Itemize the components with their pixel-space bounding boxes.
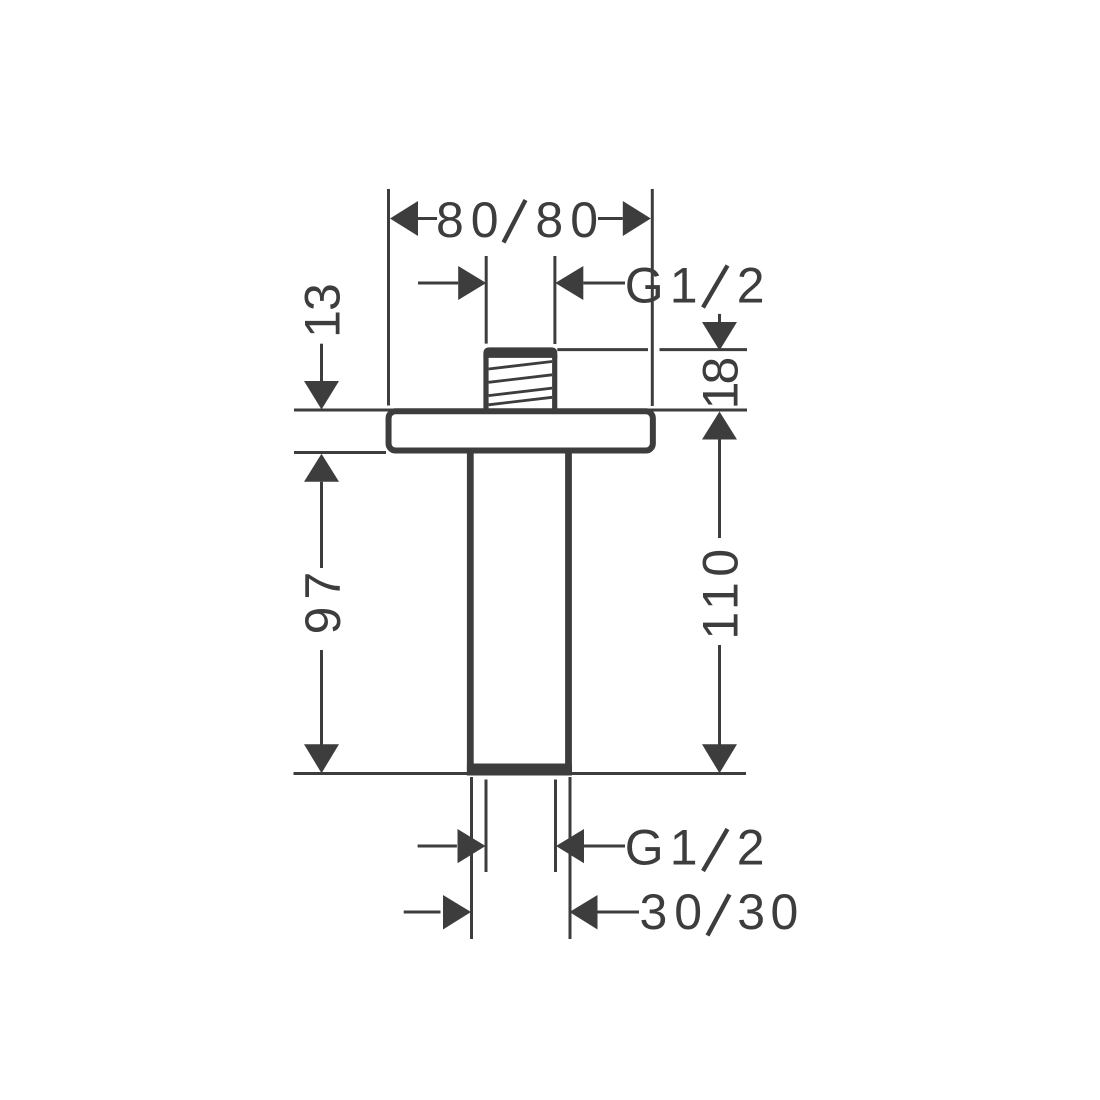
dim 80/80 left arrowhead bbox=[390, 201, 418, 236]
extension line thread G1/2 left bbox=[485, 256, 488, 344]
extension line 80/80 right bbox=[651, 189, 654, 406]
threaded nipple right wall bbox=[552, 355, 557, 409]
dim thread G1/2 right arrowhead bbox=[555, 266, 583, 300]
dim 30/30 right arrowhead bbox=[570, 895, 598, 930]
thread hatch line 2 bbox=[489, 375, 552, 383]
svg-text:110: 110 bbox=[693, 543, 749, 639]
extension line bottom G1/2 left bbox=[485, 780, 488, 873]
dim 97 down arrowhead bbox=[304, 744, 339, 773]
dim 80/80 right tail bbox=[598, 217, 623, 220]
svg-text:G1: G1 bbox=[625, 820, 704, 876]
svg-text:2: 2 bbox=[737, 820, 765, 876]
dim 80/80 right arrowhead bbox=[623, 201, 651, 236]
dim 80/80 left tail bbox=[418, 217, 437, 220]
dim 13 down arrowhead bbox=[304, 381, 339, 410]
extension line bottom G1/2 right bbox=[554, 780, 557, 873]
extension line 30/30 right bbox=[569, 777, 572, 939]
dim 110 lower line bbox=[718, 645, 721, 746]
dim 30/30 right tail bbox=[598, 911, 640, 914]
pipe bottom end band bbox=[467, 764, 572, 776]
dim thread G1/2 left arrowhead bbox=[458, 266, 486, 300]
thread hatch line 3 bbox=[489, 388, 552, 396]
dim bottom G1/2 left arrowhead bbox=[458, 829, 486, 863]
svg-text:80: 80 bbox=[535, 192, 605, 248]
pipe left wall bbox=[467, 450, 474, 776]
svg-text:13: 13 bbox=[295, 284, 351, 338]
dim 18 down arrowhead bbox=[702, 322, 737, 351]
dim bottom G1/2 right arrowhead bbox=[556, 829, 584, 863]
dim 110 upper line bbox=[718, 440, 721, 539]
extension line thread G1/2 right bbox=[553, 256, 556, 344]
thread top reference line for dim 18 bbox=[557, 348, 648, 351]
dim bottom G1/2 left tail bbox=[418, 845, 457, 848]
pipe end reference line (bottom) bbox=[294, 772, 747, 775]
dim thread G1/2 right tail bbox=[583, 282, 625, 285]
svg-text:30: 30 bbox=[737, 884, 804, 940]
ceiling reference line bbox=[294, 409, 747, 412]
dim 18 stub line bbox=[718, 314, 721, 324]
svg-text:2: 2 bbox=[737, 258, 765, 314]
svg-text:80: 80 bbox=[436, 192, 506, 248]
svg-text:18: 18 bbox=[693, 359, 749, 410]
dim bottom G1/2 right tail bbox=[584, 845, 625, 848]
svg-text:97: 97 bbox=[295, 565, 351, 635]
threaded nipple left wall bbox=[483, 355, 488, 409]
pipe right wall bbox=[565, 450, 572, 776]
svg-text:30: 30 bbox=[640, 884, 710, 940]
dim 30/30 left tail bbox=[404, 911, 441, 914]
dim 97 lower line bbox=[320, 650, 323, 746]
dim 13 line bbox=[320, 344, 323, 383]
thread hatch line 4 bbox=[489, 397, 552, 405]
dim 110 down arrowhead bbox=[702, 744, 737, 773]
svg-text:G1: G1 bbox=[625, 258, 704, 314]
dim 30/30 left arrowhead bbox=[443, 895, 471, 930]
threaded nipple G1/2 top cap bbox=[483, 347, 557, 358]
dim thread G1/2 left tail bbox=[418, 282, 458, 285]
extension line 30/30 left bbox=[470, 777, 473, 939]
ceiling flange plate (80x80 escutcheon) bbox=[389, 411, 653, 450]
dim 97 upper line bbox=[320, 482, 323, 568]
thread hatch line 1 bbox=[489, 362, 552, 370]
flange underside reference line (left) bbox=[294, 451, 386, 454]
dim 110 up arrowhead bbox=[702, 412, 737, 440]
extension line 80/80 left bbox=[387, 189, 390, 406]
dim 97 up arrowhead bbox=[304, 454, 339, 482]
